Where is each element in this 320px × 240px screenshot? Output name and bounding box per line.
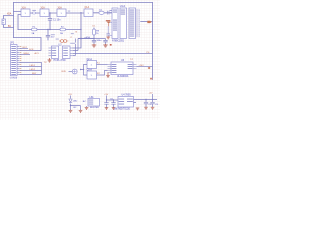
- J2 pin stubs: [17, 46, 20, 74]
- svg-text:Q1A: Q1A: [85, 6, 90, 9]
- optocoupler U2 box left: [52, 46, 59, 59]
- svg-text:JP1: JP1: [10, 41, 15, 44]
- U2 wires right: [73, 39, 153, 56]
- relay wires right: [97, 65, 108, 76]
- transformer T2 box: [40, 9, 49, 17]
- svg-text:Q2-A: Q2-A: [87, 58, 93, 61]
- U1 pin rows B: [121, 10, 126, 15]
- red ground led1: [69, 110, 73, 113]
- J2 wires: [20, 48, 42, 74]
- wire top bus: [14, 2, 153, 4]
- svg-text:MISO: MISO: [24, 53, 30, 55]
- MCU U1 box A: [112, 8, 118, 39]
- diode LED1: [69, 99, 72, 102]
- MCU U1 box C: [129, 8, 136, 39]
- red power flag: [106, 20, 111, 24]
- junction dots 2: [80, 38, 95, 40]
- U3 pin rows: [112, 64, 133, 73]
- wire top chain: [14, 12, 113, 30]
- svg-text:[+]: [+]: [131, 59, 134, 61]
- red ground xtal: [106, 37, 110, 39]
- NE1 wire: [75, 39, 77, 43]
- wire U5 gnd: [86, 106, 88, 107]
- U5 rows: [89, 100, 94, 105]
- svg-text:LED2: LED2: [30, 69, 36, 71]
- red ground C5: [105, 108, 109, 110]
- red ground C8: [151, 107, 155, 109]
- wire pin2 up: [73, 39, 94, 51]
- capacitor C4: [103, 39, 107, 45]
- red stem: [108, 24, 110, 26]
- fuse F2: [60, 26, 66, 34]
- wire U1 to right edge: [140, 21, 152, 23]
- red ground C7: [144, 107, 148, 109]
- red ground C3: [92, 44, 97, 47]
- svg-text:C1 10n: C1 10n: [53, 19, 61, 21]
- svg-text:LED: LED: [73, 101, 78, 103]
- svg-text:BUZZER: BUZZER: [90, 107, 99, 109]
- bead L1: [33, 12, 36, 14]
- wire right edge: [152, 3, 154, 80]
- wire vertical link: [73, 13, 81, 48]
- svg-text:LS1: LS1: [90, 97, 95, 99]
- relay wires left: [81, 65, 88, 76]
- wire left edge: [13, 3, 15, 38]
- svg-text:100n: 100n: [97, 40, 103, 42]
- speck above wire CD: [68, 10, 70, 13]
- svg-text:ULN2003A: ULN2003A: [117, 75, 129, 78]
- driver U3 box: [111, 62, 133, 75]
- capacitor C7: [144, 100, 148, 108]
- relay box RL2: [87, 71, 97, 79]
- svg-text:U4 7805: U4 7805: [122, 94, 132, 97]
- svg-text:KEY: KEY: [32, 73, 37, 75]
- capacitor C8: [150, 100, 154, 108]
- capacitor C3: [92, 39, 96, 45]
- red ground U3: [106, 73, 110, 78]
- svg-text:X3A: X3A: [58, 6, 63, 9]
- U1 pin stubs left: [110, 11, 113, 36]
- svg-text:U1:A: U1:A: [120, 5, 126, 8]
- wire input neutral: [4, 25, 14, 28]
- relay K1 box: [84, 9, 93, 17]
- capacitor C6: [111, 100, 115, 108]
- svg-text:+24V: +24V: [139, 65, 145, 67]
- svg-text:RST: RST: [23, 47, 28, 49]
- wire bottom edge to node: [14, 38, 42, 51]
- buzzer U5 box: [88, 99, 100, 107]
- wire led branch: [71, 106, 81, 110]
- capacitor C1 plates: [46, 18, 52, 37]
- AC input connector J1: [2, 19, 6, 25]
- U1 pin rows A: [113, 10, 117, 31]
- value speck: [71, 32, 74, 35]
- red ground U2: [48, 58, 52, 62]
- svg-text:HCPL-3700: HCPL-3700: [54, 60, 67, 62]
- capacitor C5: [104, 100, 108, 108]
- bubble connector: [72, 69, 77, 74]
- U3 pin stubs: [108, 65, 137, 73]
- relay box RL1: [87, 61, 97, 69]
- wire led: [70, 96, 72, 110]
- connector J2 box: [11, 45, 18, 76]
- U2 pin rows: [52, 48, 68, 56]
- red ground U5: [85, 107, 89, 109]
- svg-text:AT89C2051: AT89C2051: [112, 39, 125, 42]
- red ground U6: [136, 108, 140, 110]
- wire to bubble: [69, 71, 73, 73]
- J2 pin rows: [11, 46, 16, 75]
- svg-text:X0A: X0A: [7, 12, 12, 15]
- wire long bus: [73, 53, 153, 55]
- NE1 value specks: [56, 38, 59, 41]
- red diamond: [148, 67, 151, 69]
- U2 pin stubs: [49, 48, 74, 56]
- svg-text:CON16: CON16: [10, 78, 18, 80]
- svg-text:LED1: LED1: [30, 65, 36, 67]
- diode D1 vertical: [93, 28, 100, 39]
- svg-text:X2A: X2A: [41, 6, 46, 9]
- optocoupler U2 box right: [63, 46, 71, 59]
- svg-text:RXD: RXD: [62, 71, 67, 73]
- NE1 text below: [70, 42, 75, 45]
- U6 out wire: [134, 100, 158, 103]
- red end marker: [150, 78, 152, 80]
- diode D2 oval on top wire: [99, 9, 104, 14]
- wire AC bus: [18, 29, 81, 31]
- red ground C4: [103, 44, 108, 47]
- wire pin3 stub up: [73, 44, 76, 56]
- wire input live: [4, 16, 14, 20]
- U1 pin stubs right: [136, 10, 139, 36]
- neon lamp NE1: [59, 40, 68, 43]
- U1 pin rows C: [130, 10, 135, 37]
- red dot marker: [110, 44, 112, 46]
- red arrow P3: [147, 21, 152, 23]
- transformer T1 box: [21, 9, 30, 17]
- blue cap column: [106, 26, 110, 36]
- svg-text:SCK: SCK: [29, 49, 34, 51]
- svg-text:LM7805/TO220: LM7805/TO220: [114, 108, 131, 110]
- red ground led2: [79, 110, 83, 113]
- junction dots: [47, 12, 81, 30]
- red ground C6: [112, 108, 116, 110]
- J2 pin numbers: [20, 46, 21, 75]
- wire U3 out: [137, 66, 153, 68]
- wire cap bus: [78, 38, 106, 40]
- regulator U6 box: [118, 97, 134, 108]
- svg-text:X1A: X1A: [22, 6, 27, 9]
- speck near junction: [84, 36, 87, 39]
- U1 pin numbers right: [138, 10, 140, 37]
- crystal X1: [108, 11, 112, 15]
- wire snubber cap branch: [48, 13, 50, 40]
- fuse F1: [32, 26, 38, 34]
- U6 rows: [119, 99, 133, 105]
- transformer T3 box: [57, 9, 66, 17]
- svg-text:Q3-A: Q3-A: [87, 69, 93, 72]
- MCU U1 box B: [120, 8, 127, 39]
